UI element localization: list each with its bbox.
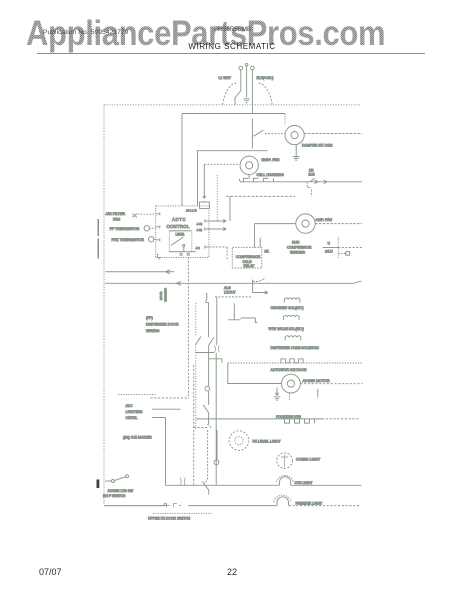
terminal ring ladder xyxy=(205,386,210,391)
wire mid bus xyxy=(226,195,295,197)
svg-text:(FF): (FF) xyxy=(146,316,153,320)
air filter fan symbol xyxy=(132,214,136,218)
wire dispenser switch riser xyxy=(252,280,254,293)
dispenser heater R2 xyxy=(285,419,315,423)
svg-text:ADJ: ADJ xyxy=(126,404,133,408)
svg-text:ADTC: ADTC xyxy=(172,217,186,222)
evaporator fan motor M2 xyxy=(240,156,258,174)
wire drop from cond fan row xyxy=(254,224,256,248)
label freezer door switch xyxy=(153,512,212,514)
wire thermistor feed dashed xyxy=(204,163,239,165)
compressor relay box K1 xyxy=(232,247,261,268)
wire plug ground lead xyxy=(246,66,248,97)
svg-text:HARNESS: HARNESS xyxy=(164,288,168,302)
connector block J2 xyxy=(200,202,210,209)
wire freshfood light row xyxy=(166,484,280,486)
svg-text:WINDING: WINDING xyxy=(290,251,305,255)
connector plug pair column xyxy=(214,345,219,352)
wire auger right stub xyxy=(317,389,319,398)
ADTC control box U1 xyxy=(156,206,209,258)
wire outer border top (L1 bus) xyxy=(104,104,362,106)
svg-text:FOUNTAIN HTR: FOUNTAIN HTR xyxy=(276,415,302,419)
wire switch to damper motor xyxy=(265,133,285,135)
svg-text:AIR FILTER: AIR FILTER xyxy=(106,212,126,216)
wire freezer bottom line mid xyxy=(188,505,277,507)
wire main left riser xyxy=(181,114,183,206)
run capacitor C1 xyxy=(323,247,339,249)
wire dotted drop left of dispenser xyxy=(216,175,218,222)
damper thermostat switch xyxy=(252,119,263,149)
damper motor M1 xyxy=(285,126,304,145)
svg-text:15 L1 N: 15 L1 N xyxy=(186,209,197,213)
power plug terminal L1 xyxy=(239,66,243,70)
svg-text:24LU: 24LU xyxy=(325,249,333,253)
watermark AppliancePartsPros.com xyxy=(26,13,385,54)
wire lighting dotted stub xyxy=(118,394,156,396)
defrost heater row connector pins xyxy=(239,178,273,182)
svg-text:J-13: J-13 xyxy=(197,222,203,226)
svg-text:CTR LIGHT: CTR LIGHT xyxy=(295,481,313,485)
wire plug left prong xyxy=(235,70,241,105)
wire dashed riser below control xyxy=(188,258,190,398)
control bottom pin X1 xyxy=(158,254,162,260)
relay contact xyxy=(171,237,183,246)
control left pin J1 xyxy=(156,238,160,241)
terminal ring on column xyxy=(214,460,219,465)
wire drop to control connector xyxy=(203,164,206,198)
wire nite light stub xyxy=(216,430,218,460)
wire ice maker riser xyxy=(165,418,167,486)
svg-text:RELAY: RELAY xyxy=(244,264,256,268)
wire ladder branch upper xyxy=(196,352,215,354)
wire lighting control branch 1 xyxy=(152,408,181,410)
wire ladder right riser xyxy=(205,293,208,424)
wire dispenser feed dashed xyxy=(215,296,253,298)
FF thermistor RT1 xyxy=(144,226,149,231)
svg-text:(IM) ICE MAKER: (IM) ICE MAKER xyxy=(123,436,152,440)
wire actuator heater row dotted xyxy=(228,362,362,364)
wire L1 feeder bus xyxy=(182,113,285,115)
ground symbol damper xyxy=(293,145,300,161)
capacitor aux stub xyxy=(338,253,345,255)
wire cond fan to right xyxy=(315,223,362,225)
svg-text:EVAP. FAN: EVAP. FAN xyxy=(262,158,280,162)
wire plug right prong xyxy=(251,70,253,114)
defrost limit switch arrows xyxy=(310,178,327,183)
svg-text:BK: BK xyxy=(265,250,270,254)
power plug terminal N xyxy=(251,66,255,70)
svg-text:WIRING: WIRING xyxy=(146,329,160,333)
wire dispenser arrow branch xyxy=(253,291,268,294)
center light lamp DS1 xyxy=(280,477,291,486)
wire defrost heater row xyxy=(241,181,362,183)
svg-text:DISPENSER DOOR: DISPENSER DOOR xyxy=(146,323,179,327)
cubed light lamp DS3 xyxy=(277,453,293,469)
door switch S3 on ladder xyxy=(209,338,214,346)
footer date xyxy=(39,567,62,577)
svg-text:CELL HARNESS: CELL HARNESS xyxy=(257,173,285,177)
wire ice maker switch lead xyxy=(105,480,112,482)
svg-text:COMPRESSOR: COMPRESSOR xyxy=(236,255,261,259)
wire compressor box lead xyxy=(259,238,261,248)
wire drop to damper motor xyxy=(284,114,286,126)
svg-text:CMP. FAN: CMP. FAN xyxy=(316,218,333,222)
ground symbol auger xyxy=(274,388,280,401)
wire center light row right xyxy=(291,484,362,486)
svg-text:BLK(+OR-): BLK(+OR-) xyxy=(257,76,274,80)
svg-text:ACTUATOR ICE DOOR: ACTUATOR ICE DOOR xyxy=(271,368,308,372)
svg-text:UPPER FZ DOOR SWITCH: UPPER FZ DOOR SWITCH xyxy=(148,517,191,521)
condenser fan motor M3 xyxy=(296,214,315,233)
nite light lamp DS2 dashed xyxy=(229,431,249,451)
svg-text:OVLD: OVLD xyxy=(243,260,253,264)
wire damper motor to right xyxy=(304,133,362,135)
footer page number xyxy=(0,567,464,577)
wire upper dispenser bus xyxy=(106,270,175,274)
svg-text:FZ LEVEL LIGHT: FZ LEVEL LIGHT xyxy=(253,440,282,444)
svg-text:L5551: L5551 xyxy=(176,233,185,237)
op riser into control top xyxy=(203,201,205,202)
control left pin J10 xyxy=(156,225,160,228)
wire control pin J3 to compressor xyxy=(209,247,227,261)
control right pin J13 xyxy=(205,219,209,222)
header rule xyxy=(37,53,425,54)
wire control pin J13 arrow xyxy=(209,219,226,222)
svg-text:BLR: BLR xyxy=(309,173,316,177)
svg-text:LT/CUT: LT/CUT xyxy=(224,291,236,295)
junction arrow on lighting bus xyxy=(176,281,181,285)
control right pin J12 xyxy=(205,227,209,230)
svg-text:CNTRL: CNTRL xyxy=(126,416,138,420)
svg-text:RH F SWITCH: RH F SWITCH xyxy=(103,494,126,498)
wire ladder left riser xyxy=(195,303,197,430)
door switch S4 on ladder xyxy=(203,405,208,413)
control right pin J3 xyxy=(205,245,209,248)
control left pin J4 xyxy=(156,212,160,215)
plug body outline right xyxy=(257,83,272,105)
wire freezer bottom line right dashed xyxy=(289,505,360,507)
svg-text:DAMPER KIT ASM: DAMPER KIT ASM xyxy=(302,144,333,148)
wire lighting dashed stub xyxy=(151,397,190,399)
margin fold mark xyxy=(97,219,99,259)
wire evap fan lower lead xyxy=(248,175,250,179)
ground symbol power cord xyxy=(243,99,249,103)
door switch diagonal light row xyxy=(203,482,209,495)
wire outer border bottom (neutral return) xyxy=(104,505,165,507)
svg-text:DISPENSER CUBE SOLENOID: DISPENSER CUBE SOLENOID xyxy=(271,346,320,350)
svg-text:J-11: J-11 xyxy=(197,228,203,232)
model number xyxy=(214,26,251,33)
wire outer border left xyxy=(103,105,105,506)
freezer door switch S6 xyxy=(167,504,182,508)
wire lighting control branch 2 xyxy=(152,417,166,419)
publication number xyxy=(43,29,128,36)
wire freezer bottom line left xyxy=(104,505,165,507)
dispenser switch S1 xyxy=(253,279,269,284)
svg-text:FAN: FAN xyxy=(113,218,121,222)
cube solenoid L3 xyxy=(285,336,301,341)
wire auger motor bottom dash xyxy=(289,393,291,400)
svg-text:CUBED LIGHT: CUBED LIGHT xyxy=(296,458,321,462)
svg-text:LIGHTING: LIGHTING xyxy=(126,410,143,414)
wire right lighting rows dotted xyxy=(228,362,362,364)
wire ladder branch lower xyxy=(209,359,222,363)
wire fan to control dashed xyxy=(138,213,156,215)
svg-text:CRUSHED SOL(RLY): CRUSHED SOL(RLY) xyxy=(271,306,304,310)
binder mark xyxy=(97,480,100,489)
wire T junction to solenoids xyxy=(228,303,257,322)
svg-text:FRZ THERMISTOR: FRZ THERMISTOR xyxy=(112,238,145,242)
freezer light lamp DS4 xyxy=(277,497,289,506)
wire freshfood light row xyxy=(197,150,268,152)
svg-text:COMPRESSOR: COMPRESSOR xyxy=(287,246,312,250)
plug body outline left xyxy=(223,83,238,105)
relay inside control xyxy=(169,231,192,252)
actuator heater R1 xyxy=(281,359,303,363)
svg-text:ALG: ALG xyxy=(224,286,231,290)
defrost thermostat drop xyxy=(307,182,311,197)
FRZ thermistor RT2 xyxy=(149,237,154,242)
ice maker switch S5 xyxy=(112,480,115,483)
svg-text:RUN: RUN xyxy=(292,241,300,245)
wire auger motor feed xyxy=(228,363,282,384)
door switch S2 on ladder xyxy=(196,337,202,345)
svg-text:J-2: J-2 xyxy=(196,246,200,250)
connector plug pair light row xyxy=(180,478,185,486)
svg-text:DOOR: DOOR xyxy=(159,292,163,300)
svg-text:L1 WHT: L1 WHT xyxy=(219,76,231,80)
svg-text:AUGER MOTOR: AUGER MOTOR xyxy=(303,379,330,383)
crushed solenoid L1 xyxy=(284,298,300,303)
water valve solenoid L2 xyxy=(283,315,299,320)
svg-text:FF THERMISTOR: FF THERMISTOR xyxy=(110,227,140,231)
page title xyxy=(0,42,464,51)
control bottom pin X2 xyxy=(180,253,183,256)
auger motor M4 xyxy=(282,374,301,393)
wire auger row right dashed xyxy=(300,383,362,385)
svg-text:U: U xyxy=(328,242,331,246)
svg-text:FREEZER LIGHT: FREEZER LIGHT xyxy=(296,501,323,505)
svg-text:CONTROL: CONTROL xyxy=(167,224,190,229)
wire dispenser heater row xyxy=(196,418,322,420)
wire left dispenser column xyxy=(215,297,218,485)
wire main lighting bus xyxy=(105,281,362,283)
power plug terminal ground pin xyxy=(245,64,248,67)
wire riser to control xyxy=(197,151,199,206)
wire ladder bottom branch xyxy=(194,365,209,485)
wire control feed riser xyxy=(229,196,231,221)
svg-text:AUGER LTD SW: AUGER LTD SW xyxy=(108,489,134,493)
wire condenser fan row xyxy=(255,223,296,225)
svg-text:WTR VALVE SOL(RLY): WTR VALVE SOL(RLY) xyxy=(269,327,304,331)
wire control pin J12 arrow xyxy=(209,227,226,230)
